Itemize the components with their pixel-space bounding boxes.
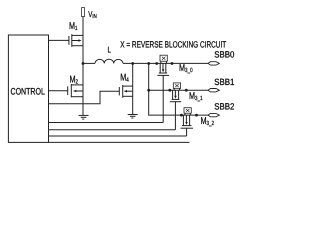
wire M1 gate from control [49,39,69,41]
node branch2 left [180,114,183,117]
ground below M4 [128,115,138,119]
wire branch1 line [149,89,209,91]
node feed tap [147,62,150,65]
transistor M1 [69,34,83,47]
transistor M3_0 [157,63,169,122]
transistor M4 [119,85,132,98]
node M4 drain tap [131,62,134,65]
svg-text:M4: M4 [120,72,129,83]
reverse blocking box X1 [173,83,180,90]
svg-text:CONTROL: CONTROL [11,86,45,97]
junction dots [82,62,198,116]
wire M4 gate from control [49,91,120,104]
wire M2 gate from control [49,90,68,92]
node branch0 right [171,62,174,65]
svg-text:SBB2: SBB2 [214,101,234,111]
transistor M3_1 [170,90,181,130]
svg-text:SBB1: SBB1 [214,77,234,87]
bus line 1 [49,122,164,124]
svg-text:M1: M1 [69,21,78,32]
svg-text:M3_1: M3_1 [189,91,203,102]
bus line 3 [49,135,187,137]
ground below M2 [79,115,89,119]
svg-text:X = REVERSE BLOCKING CIRCUIT: X = REVERSE BLOCKING CIRCUIT [120,40,226,50]
svg-text:M2: M2 [70,74,79,85]
reverse blocking box X2 [184,108,191,115]
transistor M3_2 [181,115,194,136]
node branch2 right [195,114,198,117]
control block [8,35,48,142]
VIN terminal [82,8,85,17]
output pin SBB1 [208,89,219,92]
svg-text:VIN: VIN [88,9,97,20]
inductor L [95,59,123,63]
node feed tap branch1 [147,89,150,92]
wire M4 drain vertical [132,64,134,115]
reverse blocking box X0 [160,55,167,63]
wire feed vertical to lower branches [149,63,209,115]
output pin SBB0 [208,62,219,65]
node LX1 [82,62,85,65]
output pin SBB2 [208,113,219,116]
wire LX1 to inductor [83,62,95,64]
svg-text:SBB0: SBB0 [214,49,234,59]
node branch1 right [185,89,188,92]
wire main LX2 line [123,62,208,64]
bus line 2 [49,129,176,131]
transistor M2 [68,84,83,97]
svg-text:L: L [108,45,112,55]
node branch0 left [155,62,158,65]
wire VIN vertical down through M1/M2 right side [82,17,84,116]
svg-text:M3_2: M3_2 [201,116,215,127]
svg-text:M3_0: M3_0 [179,63,193,74]
node branch1 left [168,89,171,92]
bus line 4 [49,141,190,143]
